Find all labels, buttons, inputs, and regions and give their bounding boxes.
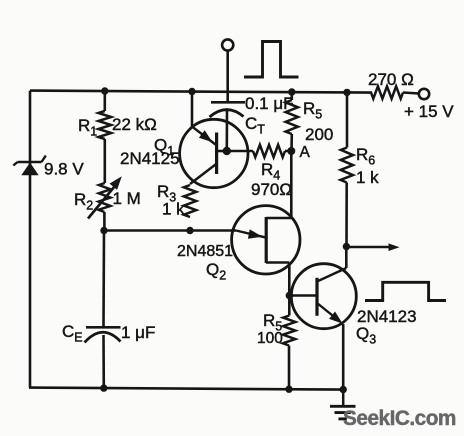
label 2N4851	[177, 243, 233, 260]
svg-text:1 μF: 1 μF	[121, 323, 155, 342]
transistor Q3 2N4123	[291, 264, 356, 329]
resistor 270 ohm	[371, 86, 403, 98]
wire R4 to node A	[285, 150, 291, 153]
wire base junction to R4	[227, 150, 253, 153]
wire middle row (R2/R3 to Q2 emitter)	[104, 229, 236, 232]
wire R6 bottom lead	[345, 183, 348, 247]
node ground junction	[340, 386, 347, 393]
label 970 Ohm	[251, 180, 292, 199]
wire Q2 B1 horizontal	[266, 261, 289, 264]
wire CT to base junction	[226, 111, 229, 151]
node top/R6 junction	[343, 89, 350, 96]
label 2N4125	[120, 149, 180, 168]
wire 270ohm to terminal	[403, 93, 419, 94]
svg-text:1 M: 1 M	[113, 189, 141, 208]
label R2	[74, 190, 93, 213]
resistor R2 1M (variable)	[88, 176, 122, 218]
label 0.1 uF	[245, 94, 294, 113]
label 1 M	[113, 189, 141, 208]
wire Q2 B2 horizontal	[266, 217, 291, 220]
label R6	[356, 145, 375, 168]
label 2N4123	[357, 307, 417, 326]
node Q1 base / CT junction	[223, 147, 231, 155]
resistor R3 1k	[184, 185, 196, 217]
wire R5b bottom lead	[288, 346, 291, 390]
svg-text:1 k: 1 k	[162, 200, 185, 219]
node Q3 base junction	[286, 292, 293, 299]
wire R5b top lead	[288, 296, 291, 316]
label 9.8 V	[44, 160, 84, 179]
wire R1-R2 lead	[104, 139, 107, 183]
wire CE branch upper	[102, 231, 105, 328]
wire node A to Q2 B2	[290, 151, 293, 218]
label 200	[305, 125, 333, 144]
svg-text:22 kΩ: 22 kΩ	[112, 115, 157, 134]
output arrow	[346, 243, 399, 251]
wire top rail	[30, 91, 372, 93]
node top/Q1-emitter junction	[188, 88, 195, 95]
transistor Q2 2N4851	[232, 206, 300, 274]
wire left rail	[29, 91, 32, 388]
wire R6 top lead	[346, 92, 349, 148]
resistor R6 1k	[341, 148, 354, 183]
svg-text:9.8 V: 9.8 V	[44, 160, 84, 179]
wire Q3 emitter drop	[342, 324, 345, 390]
node top/R5 junction	[288, 88, 295, 95]
node CE/bottom junction	[100, 384, 107, 391]
resistor R5 200	[286, 100, 298, 134]
svg-text:1 k: 1 k	[356, 168, 379, 187]
node output junction	[343, 243, 350, 250]
label A	[300, 144, 311, 161]
svg-text:2N4125: 2N4125	[120, 149, 180, 168]
label 1 k (R3)	[162, 200, 185, 219]
label Q3	[356, 324, 376, 347]
capacitor CE 1uF	[85, 327, 121, 342]
label 100	[257, 330, 283, 347]
wire input terminal drop	[226, 51, 229, 102]
label 1 uF (CE)	[121, 323, 155, 342]
resistor R4 970	[253, 145, 285, 157]
resistor R1 22k	[98, 111, 111, 139]
label 270 Ohm	[368, 70, 414, 89]
label R4	[261, 160, 280, 183]
wire R2 bottom lead	[103, 212, 106, 231]
label CE	[62, 322, 83, 345]
+15V terminal	[419, 89, 429, 99]
svg-text:200: 200	[305, 125, 333, 144]
resistor R5b 100	[283, 316, 296, 346]
node A junction	[287, 147, 295, 155]
svg-text:A: A	[300, 144, 311, 161]
wire Q1 base to junction	[217, 150, 227, 153]
svg-text:270 Ω: 270 Ω	[368, 70, 414, 89]
svg-text:100: 100	[257, 330, 283, 347]
node middle-left junction	[100, 227, 107, 234]
wire Q1 emitter drop	[191, 91, 194, 127]
wire Q2 B1 drop to Q3 base node	[288, 263, 291, 296]
wire CE branch lower	[102, 335, 105, 388]
transistor Q1 2N4125	[180, 119, 248, 187]
svg-text:970Ω: 970Ω	[251, 180, 292, 199]
input terminal	[222, 39, 233, 50]
wire output node to Q3 collector	[345, 247, 348, 269]
svg-text:0.1 μF: 0.1 μF	[245, 94, 294, 113]
label +15V	[404, 102, 454, 121]
label CT	[245, 114, 265, 137]
label 1 k (R6)	[356, 168, 379, 187]
zener diode 9.8V	[13, 156, 46, 176]
label R5	[303, 99, 322, 122]
svg-text:2N4851: 2N4851	[177, 243, 233, 260]
label R3	[157, 182, 176, 205]
ground	[330, 390, 356, 419]
output square waveform	[365, 282, 446, 300]
label 22 kOhm	[112, 115, 157, 134]
svg-text:+ 15 V: + 15 V	[404, 102, 454, 121]
label R5b	[263, 311, 282, 334]
wire R5 top lead	[290, 92, 293, 101]
node top/R1 junction	[101, 87, 108, 94]
label Q2	[206, 260, 226, 283]
wire bottom rail	[29, 388, 343, 390]
label Q1	[154, 136, 174, 159]
watermark SeekIC.com	[343, 407, 456, 430]
svg-text:SeekIC.com: SeekIC.com	[343, 407, 456, 430]
input pulse waveform	[244, 42, 299, 78]
wire Q3 base	[289, 294, 317, 297]
wire R1 top lead	[104, 91, 107, 111]
wire R5 bottom lead	[290, 134, 293, 151]
capacitor CT 0.1uF	[210, 102, 246, 117]
node R3/middle junction	[186, 227, 193, 234]
label R1	[78, 116, 97, 139]
node R5b/bottom junction	[285, 386, 292, 393]
